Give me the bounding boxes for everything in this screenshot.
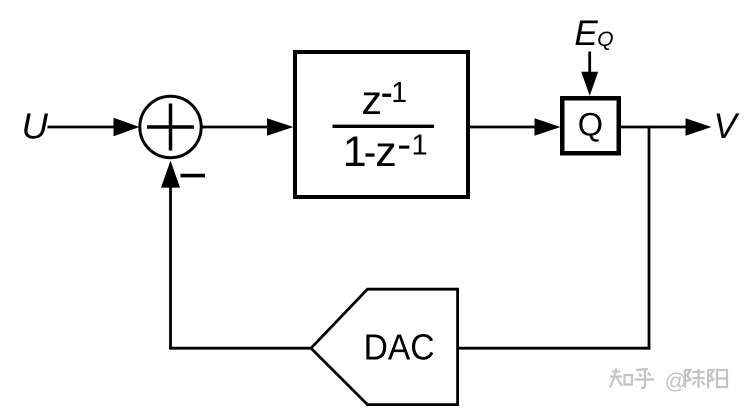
glyph 阳 <box>708 370 727 389</box>
svg-text:Q: Q <box>597 28 613 51</box>
fraction bar of z-1/(1-z-1) <box>333 125 435 128</box>
wire EQ into quantizer <box>588 52 591 74</box>
svg-text:DAC: DAC <box>364 327 435 368</box>
wire feedback riser up into summing junction <box>169 186 172 350</box>
wire integrator to quantizer <box>470 126 537 129</box>
minus sign at feedback input <box>181 174 206 178</box>
quantizer block Q <box>562 98 619 153</box>
svg-text:z: z <box>375 128 397 176</box>
wire quantizer to output V <box>621 126 688 129</box>
wire U to summing junction <box>48 126 117 129</box>
glyph 知 <box>610 369 632 388</box>
wire summing junction to integrator <box>202 126 270 129</box>
plus sign inside summing junction <box>147 125 194 129</box>
glyph 乎 <box>635 369 655 388</box>
svg-text:1: 1 <box>391 77 407 109</box>
svg-text:E: E <box>574 14 598 53</box>
svg-text:V: V <box>714 107 741 146</box>
glyph 陈 <box>685 369 705 388</box>
integrator block rectangle <box>295 52 468 197</box>
summing junction circle <box>140 96 201 157</box>
svg-text:1: 1 <box>412 130 428 162</box>
wire feedback vertical from output node <box>648 126 651 350</box>
wire DAC output to feedback riser <box>169 347 311 350</box>
svg-text:@: @ <box>665 369 687 394</box>
svg-text:z: z <box>362 77 383 123</box>
svg-text:1: 1 <box>343 128 367 176</box>
watermark 知乎 @陈阳 <box>610 369 727 394</box>
DAC block pentagon <box>311 289 458 404</box>
wire DAC to feedback vertical <box>458 347 651 350</box>
svg-text:Q: Q <box>578 106 603 142</box>
svg-text:U: U <box>22 106 49 147</box>
